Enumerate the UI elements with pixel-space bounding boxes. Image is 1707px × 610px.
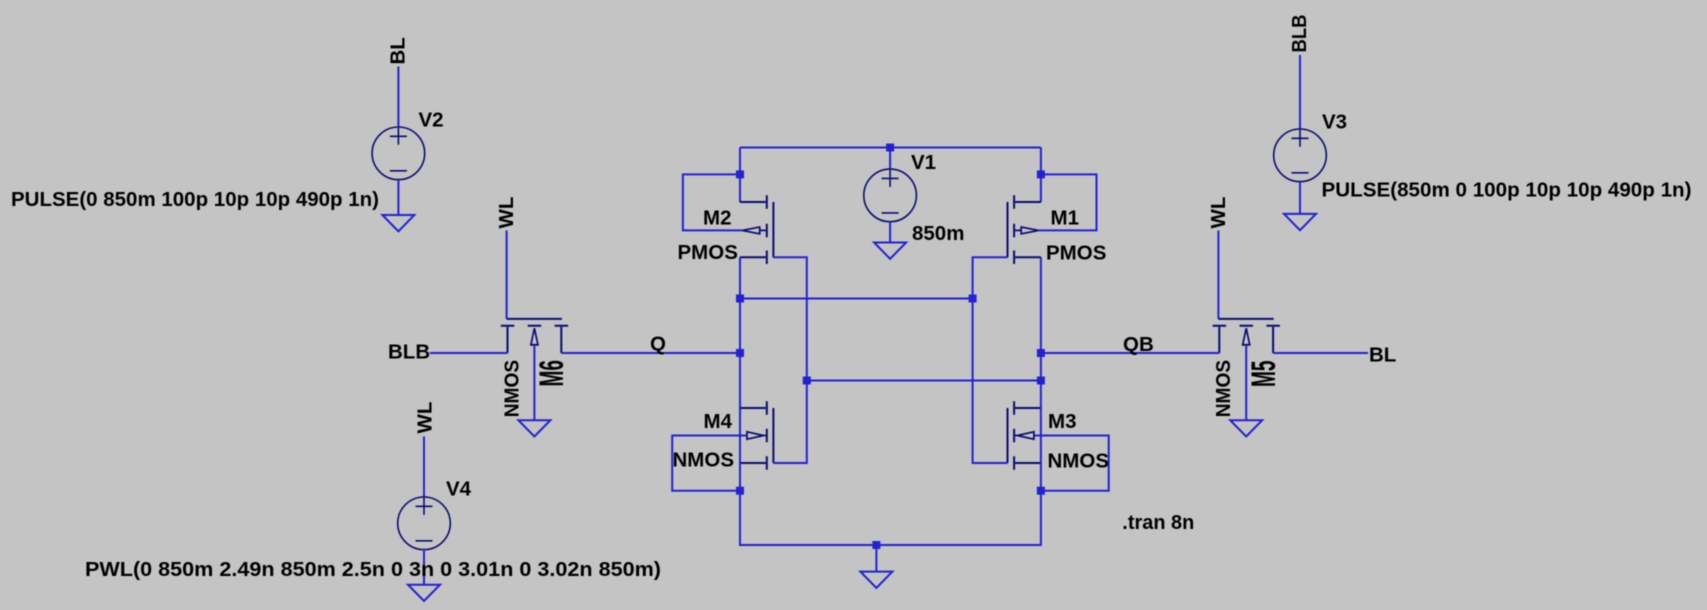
wire M5 source to BL (1273, 352, 1368, 354)
svg-text:M5: M5 (1244, 361, 1282, 387)
svg-text:WL: WL (1207, 197, 1230, 229)
wire VDD rail to V1 plus (889, 148, 891, 170)
ground below V3 (1284, 214, 1316, 230)
svg-text:PULSE(0 850m 100p 10p 10p 490p: PULSE(0 850m 100p 10p 10p 490p 1n) (11, 188, 379, 211)
svg-text:850m: 850m (912, 222, 964, 245)
transistor M6 (501, 319, 568, 353)
transistor M1 (1008, 195, 1041, 264)
wire column Q (left inverter output) (739, 257, 741, 490)
svg-text:PMOS: PMOS (1046, 242, 1106, 265)
svg-text:M4: M4 (704, 410, 733, 433)
wire BL label to V2 plus terminal (397, 67, 399, 127)
node M2 source/bulk tie (736, 170, 744, 178)
wire M3 bulk loop to ground rail (1034, 436, 1108, 491)
transistor M3 (1008, 401, 1041, 470)
node node QB (1037, 349, 1045, 357)
svg-text:PMOS: PMOS (678, 241, 738, 264)
wire M1/M3 gates to Q (740, 298, 973, 300)
voltage source V2 (372, 127, 425, 180)
ground center (latch) (860, 572, 892, 588)
transistor M5 (1213, 319, 1280, 353)
wire BLB to M6 drain (430, 352, 508, 354)
svg-text:NMOS: NMOS (1212, 360, 1235, 418)
node VDD at V1 (886, 144, 894, 152)
wire WL label to M5 gate (1217, 231, 1219, 319)
svg-text:BLB: BLB (1288, 15, 1311, 53)
svg-text:Q: Q (650, 333, 666, 356)
ground below V2 (382, 215, 414, 231)
wire BLB label to V3 plus terminal (1299, 55, 1301, 129)
svg-text:V2: V2 (419, 109, 444, 132)
voltage source V1 (864, 169, 917, 222)
svg-text:PULSE(850m 0 100p 10p 10p 490p: PULSE(850m 0 100p 10p 10p 490p 1n) (1322, 179, 1692, 202)
svg-text:M2: M2 (703, 207, 731, 230)
wire M6 bulk to ground (533, 346, 535, 420)
svg-text:WL: WL (414, 402, 437, 434)
wire M2/M4 gate column (773, 257, 806, 463)
ground below V1 (874, 243, 906, 259)
transistor M2 (740, 195, 773, 264)
svg-text:NMOS: NMOS (673, 449, 735, 472)
wire column QB (right inverter output) (1040, 257, 1042, 490)
node Q to M1 gate tap (736, 295, 744, 303)
wire VDD rail to M1 source (1040, 148, 1042, 203)
voltage source V3 (1274, 129, 1327, 182)
wire M2 bulk loop to VDD (683, 174, 742, 230)
svg-text:BL: BL (1369, 344, 1396, 367)
wire M5 bulk to ground (1245, 346, 1247, 420)
wire node QB to M5 drain (1041, 352, 1219, 354)
voltage source V4 (398, 497, 451, 550)
ground below M6 (518, 420, 550, 436)
svg-text:QB: QB (1123, 333, 1154, 356)
wire ground rail (740, 491, 1041, 545)
svg-text:M6: M6 (532, 360, 570, 386)
svg-text:M1: M1 (1051, 207, 1079, 230)
node M1/M3 gate column tap (969, 295, 977, 303)
svg-text:PWL(0 850m 2.49n 850m 2.5n 0 3: PWL(0 850m 2.49n 850m 2.5n 0 3n 0 3.01n … (85, 558, 661, 581)
wire V1 minus to ground (889, 221, 891, 242)
wire V3 minus to ground (1299, 181, 1301, 214)
transistor M4 (740, 401, 773, 470)
wire VDD rail to M2 source (739, 148, 741, 203)
wire ground rail to ground (875, 545, 877, 572)
node QB to M2 gate tap (1037, 377, 1045, 385)
svg-text:V4: V4 (446, 478, 472, 501)
node ground rail tap (872, 541, 880, 549)
svg-text:NMOS: NMOS (500, 360, 523, 418)
svg-text:NMOS: NMOS (1048, 450, 1110, 473)
node M1 source/bulk tie (1037, 170, 1045, 178)
wire M1 bulk loop to VDD (1039, 174, 1097, 230)
node M2/M4 gate column tap (803, 377, 811, 385)
svg-text:M3: M3 (1048, 410, 1076, 433)
wire M6 source to node Q (561, 352, 740, 354)
svg-text:WL: WL (495, 197, 518, 229)
wire M1/M3 gate column (973, 257, 1008, 463)
wire M2/M4 gates to QB (807, 380, 1041, 382)
wire V2 minus to ground (397, 180, 399, 216)
wire WL label to M6 gate (506, 231, 508, 319)
ground below M5 (1230, 420, 1262, 436)
svg-text:BLB: BLB (388, 341, 430, 364)
svg-text:.tran 8n: .tran 8n (1122, 511, 1194, 534)
wire WL label to V4 plus terminal (423, 437, 425, 498)
svg-text:V1: V1 (911, 151, 936, 174)
svg-text:V3: V3 (1322, 111, 1347, 134)
wire VDD rail (740, 147, 1041, 149)
svg-text:BL: BL (387, 37, 410, 64)
wire V4 minus to ground (423, 549, 425, 584)
ground below V4 (408, 585, 440, 601)
wire M4 bulk loop to ground rail (672, 436, 746, 491)
node node Q (736, 349, 744, 357)
node M4 source/bulk tie (736, 487, 744, 495)
node M3 source/bulk tie (1037, 487, 1045, 495)
